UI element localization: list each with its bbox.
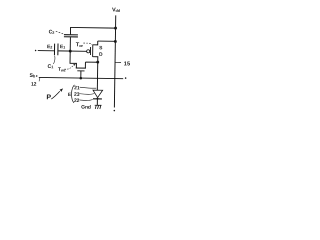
leader 23 <box>80 93 95 94</box>
pin label D <box>99 52 103 58</box>
wire from C1 to node E1 and T_OP gate <box>58 50 86 52</box>
wire C2 upper lead <box>69 27 71 34</box>
leader 12 <box>38 78 41 82</box>
leader dashed T_WE <box>65 65 74 70</box>
svg-text:E1: E1 <box>60 44 65 50</box>
label 15 tick <box>115 61 121 63</box>
leader dashed C2 <box>56 31 64 34</box>
svg-text:E2: E2 <box>47 44 52 50</box>
wire Vdd/output vertical line 15 <box>114 15 115 107</box>
net Vdd label <box>112 7 121 13</box>
transistor T_OP gate bar <box>89 47 91 55</box>
transistor T_OP (PMOS) gate bubble <box>87 50 90 53</box>
node junction dot source wire to Vdd line <box>114 40 117 43</box>
transistor T_WE gate bar <box>77 70 84 72</box>
label Sb <box>29 73 35 79</box>
svg-text:Gnd: Gnd <box>81 105 91 111</box>
label E1 <box>60 44 65 50</box>
node output junction dot <box>96 61 99 64</box>
wire C2 lower lead to node E1 <box>69 37 71 51</box>
svg-text:12: 12 <box>31 82 37 88</box>
svg-text:TOP: TOP <box>76 42 83 48</box>
wire output node to T_WE right terminal <box>85 62 97 68</box>
arrow P incident light <box>51 91 60 99</box>
leader arrowhead T_WE <box>73 64 75 66</box>
capacitor C1 <box>54 43 58 55</box>
svg-text:22: 22 <box>74 98 80 104</box>
ground Gnd symbol <box>95 105 102 109</box>
arrowhead P incident light <box>60 88 63 92</box>
node dot diode apex to cathode <box>96 98 98 100</box>
node E1 junction dot <box>69 50 72 53</box>
label Gnd <box>81 105 91 111</box>
svg-text:21: 21 <box>74 85 80 91</box>
label 23 <box>74 92 80 98</box>
transistor T_WE gate lead <box>80 71 82 78</box>
wire output node down to diode <box>96 62 98 90</box>
svg-text:P: P <box>46 94 51 101</box>
wire Sb horizontal line <box>39 77 123 78</box>
node junction dot gate to Sb line <box>79 77 82 80</box>
label E2 <box>47 44 52 50</box>
leader C1 <box>53 56 55 64</box>
svg-text:Sb: Sb <box>29 73 35 79</box>
label C1 <box>48 64 54 70</box>
svg-text:C2: C2 <box>49 29 55 35</box>
wire diode cathode to ground <box>96 99 98 105</box>
label 22 <box>74 98 80 104</box>
wire Sb leading dot left <box>36 75 38 77</box>
transistor T_WE channel bar <box>76 67 86 69</box>
label C2 <box>49 29 55 35</box>
diode triangle (anode) <box>93 90 103 98</box>
wire source to Vdd line <box>98 40 116 42</box>
label P (incident light) <box>46 94 51 101</box>
svg-text:C1: C1 <box>48 64 54 70</box>
leader 21 <box>80 87 97 88</box>
label 12 <box>31 82 37 88</box>
label T_WE <box>58 67 66 73</box>
transistor T_OP drain lead <box>93 57 98 62</box>
label T_OP <box>76 42 83 48</box>
transistor T_OP channel bar <box>92 44 94 56</box>
label 21 <box>74 85 80 91</box>
svg-text:S: S <box>99 45 103 51</box>
node junction dot top wire to Vdd line <box>114 27 117 30</box>
pin label S <box>99 45 103 51</box>
capacitor C2 <box>64 35 78 37</box>
leader dashed T_OP <box>83 43 92 45</box>
wire Sb continuation dot right <box>125 77 127 79</box>
wire E2 left segment with continuation dot <box>35 50 37 52</box>
wire continuation dot below line 15 <box>114 110 116 112</box>
svg-text:Vdd: Vdd <box>112 7 121 13</box>
svg-text:D: D <box>99 52 103 58</box>
transistor T_WE left terminal from node E1 <box>70 51 77 68</box>
svg-text:15: 15 <box>124 61 131 67</box>
bracket for layers E <box>71 85 74 103</box>
label 15 <box>124 61 131 67</box>
label E <box>68 92 72 98</box>
diode cathode bar <box>93 98 102 100</box>
wire top horizontal from C2 to Vdd line <box>71 26 116 29</box>
leader 22 <box>79 99 92 100</box>
transistor T_OP source lead <box>93 41 98 45</box>
svg-text:TWE: TWE <box>58 67 66 73</box>
